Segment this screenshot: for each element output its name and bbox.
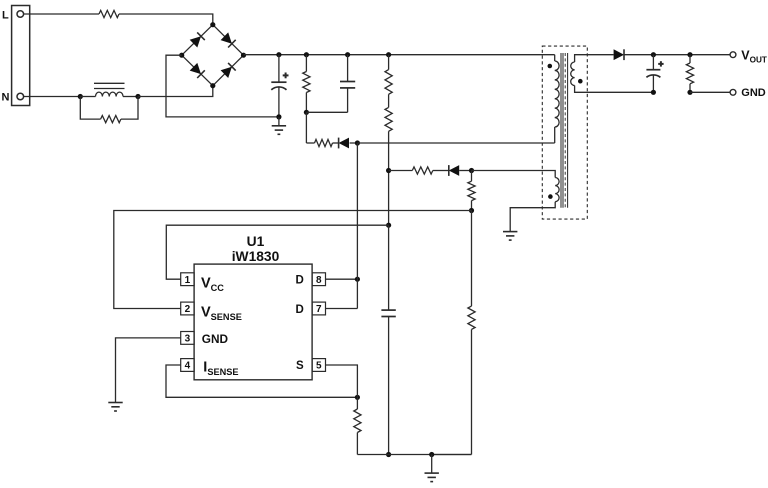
wire drain row to primary [357,142,554,144]
startup resistor 2 [385,107,392,131]
svg-text:4: 4 [185,361,191,372]
wire vcc diode to aux node [459,170,471,172]
aux winding bottom lead [510,202,555,232]
startup resistor upper lead [388,55,390,70]
input terminal block [12,6,30,106]
primary winding top lead [554,55,556,61]
node choke right [135,94,140,99]
bridge diode D4 (bottom to right) [221,67,232,78]
svg-text:8: 8 [316,275,322,286]
node drain pin8 [355,277,360,282]
vcc cap lower lead [388,317,390,455]
wire clamp to resistor [306,142,314,144]
gnd terminal [730,89,736,95]
transformer core line 2 [562,53,564,208]
primary ground stem [278,117,280,126]
node rail startup R [386,52,391,57]
wire divider bottom to gnd line [432,454,472,456]
secondary polarity dot [578,79,583,84]
snubber resistor leads [305,55,307,72]
primary winding bottom lead [554,127,556,143]
svg-text:L: L [2,9,9,21]
node bottom gnd symbol [429,452,434,457]
common-mode choke winding [96,92,124,96]
pin 4 box [181,359,194,372]
svg-text:D: D [296,275,304,287]
primary polarity dot [548,64,553,69]
output capacitor leads [652,55,654,70]
svg-text:2: 2 [185,304,191,315]
wire choke to node [123,96,138,98]
bridge node bottom [210,83,215,88]
snubber capacitor [340,81,355,83]
vcc bus upper lead [388,225,390,310]
IC U1 body [194,264,312,380]
svg-text:U1: U1 [247,234,265,249]
node vcc cap at gnd line [386,452,391,457]
wire pin4 isense [166,365,357,397]
vcc rectifier diode (pointing left) [449,165,459,176]
wire pin8 to drain [326,278,358,280]
vsense divider lower resistor [471,211,473,307]
wire snubber C to R bottom [306,111,347,113]
bulk capacitor leads [278,55,280,82]
wire resistor to clamp diode [333,142,339,144]
choke core bars [94,82,125,84]
pin 8 box [312,273,325,286]
wire output gnd [690,91,730,93]
pin 1 box [181,273,194,286]
clamp damping resistor [315,139,333,146]
wire diode to vout [624,54,730,56]
wire N to bridge bottom [138,86,213,97]
node vsense tap [469,208,474,213]
wire N to choke [24,96,81,98]
wire DC rail [244,54,555,56]
bottom ground [425,472,439,474]
node aux row at vcc bus [386,168,391,173]
bridge node left [179,53,184,58]
aux polarity dot [548,194,553,199]
wire L to fusible resistor [24,13,99,15]
node aux divider top [469,168,474,173]
bridge node top [210,22,215,27]
wire to choke [80,96,95,98]
auxiliary winding [555,178,559,202]
svg-text:1: 1 [185,275,191,286]
wire startup to vcc bus [388,131,390,225]
primary ground [272,125,286,127]
node isense [355,395,360,400]
vout terminal [730,52,736,58]
node drain clamp [355,140,360,145]
startup resistor 1 [385,70,392,95]
svg-text:7: 7 [316,304,322,315]
secondary winding top lead [575,55,614,62]
svg-text:5: 5 [316,361,322,372]
drain vertical wire [356,143,358,309]
bridge diode D2 (top to right) [221,32,232,43]
wire to vcc diode [433,170,448,172]
load resistor [689,55,691,63]
node rail snubber R [304,52,309,57]
startup resistor mid lead [388,94,390,107]
node bulk cap negative [276,114,281,119]
pin 5 box [312,359,325,372]
transformer dashed box [542,46,587,219]
bridge edge bottom-right [213,55,244,85]
vsense divider upper resistor [471,171,473,182]
node vcc row [386,223,391,228]
bridge edge left-bottom [182,55,213,85]
node rail snubber C [345,52,350,57]
terminal pin L [17,11,24,18]
svg-text:N: N [2,92,10,104]
snubber resistor [303,72,310,93]
sense resistor [356,397,358,409]
wire aux node to winding [472,171,556,178]
wire aux row left [389,170,413,172]
wire pin3 to ground [116,338,181,402]
svg-text:3: 3 [185,334,191,345]
bulk capacitor plus [283,74,289,76]
svg-text:GND: GND [202,332,229,346]
bridge node right [241,53,246,58]
vcc charge resistor [412,167,433,174]
terminal pin N [17,93,24,100]
svg-text:iW1830: iW1830 [232,249,280,264]
bridge diode D1 (left to top) [190,36,201,47]
primary winding [555,61,559,127]
wire vsense row [114,211,472,309]
clamp diode (pointing left) [339,138,349,149]
bridge diode D3 (left to bottom) [190,63,201,74]
wire pin7 to drain [326,308,358,310]
bridge edge left-top [182,25,213,56]
node snubber bottom [304,110,309,115]
transformer core line 1 [560,53,562,208]
node load resistor top [687,52,692,57]
pin 2 box [181,302,194,315]
wire resistor to bridge top [119,14,213,25]
wire snubber to clamp row [305,112,307,143]
wire bottom gnd line [357,454,471,456]
choke damping resistor branch [80,97,100,120]
svg-text:GND: GND [741,87,766,99]
transformer core shield (dashed) [564,53,566,208]
aux ground [503,231,517,233]
transformer core line 3 [567,53,569,208]
node load resistor bottom [687,90,692,95]
node rail bulk cap [276,52,281,57]
wire pin5 source [326,365,358,397]
bottom ground stem [431,455,433,473]
node output cap bottom [651,90,656,95]
output capacitor (polarized) [646,69,660,71]
bulk capacitor (polarized) [271,81,286,83]
wire clamp diode to drain node [350,142,358,144]
wire vcc row [166,225,388,279]
IC ground [108,402,122,404]
bridge edge top-right [213,25,244,56]
node choke left [78,94,83,99]
pin 3 box [181,332,194,345]
output capacitor plus [658,63,663,65]
secondary winding [571,62,575,85]
output rectifier diode [614,49,624,60]
svg-text:S: S [296,360,304,372]
vcc capacitor [381,309,395,311]
node output cap top [651,52,656,57]
svg-text:D: D [296,304,304,316]
fusible resistor [99,10,119,17]
wire bridge negative return [166,55,279,117]
snubber capacitor leads [347,55,349,82]
pin 7 box [312,302,325,315]
secondary winding bottom lead [575,86,654,93]
